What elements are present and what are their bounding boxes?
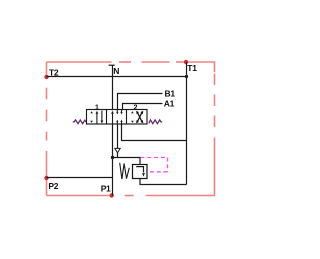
enclosure dashed border left [46,151,48,196]
spring right of valve [149,120,162,124]
relief valve flow arrow [136,167,143,173]
wire N carryover vertical [112,65,114,110]
relief valve pilot line (dashed) [141,158,168,172]
wire T2-T1 tank line [47,76,187,78]
svg-text:B1: B1 [165,89,176,99]
wire relief feed [117,124,119,158]
svg-text:P2: P2 [48,181,58,191]
valve neutral position internals [111,110,123,124]
svg-text:T2: T2 [49,68,59,78]
enclosure dashed border bottom [125,195,134,197]
directional valve DV1 body [87,110,148,125]
wire P1 vertical [112,124,114,196]
junction node P [111,156,114,159]
valve position 2 internals [131,111,143,123]
spring left of valve [73,120,86,124]
enclosure dashed border top (valve block boundary) [47,62,215,196]
svg-text:2: 2 [134,104,138,111]
wire valve tank return [122,124,187,141]
relief valve spring [120,163,130,179]
wire relief output [140,179,187,185]
svg-text:N: N [113,66,119,76]
port dot T1 [184,60,188,64]
svg-text:T1: T1 [187,63,197,73]
port dot P2 [44,176,48,180]
port dot P1 [110,193,114,197]
relief valve RV body [133,165,148,179]
wire relief input [113,158,141,165]
svg-text:A1: A1 [164,99,175,109]
svg-text:1: 1 [95,104,99,111]
enclosure dashed border right [214,74,216,86]
wire A1 [123,104,163,111]
flow direction check arrow [115,148,120,152]
port N tick [109,64,115,66]
port dot T2 [44,75,48,79]
wire T1 down right side [186,62,188,185]
junction node T [185,75,188,78]
svg-text:P1: P1 [101,184,111,194]
wire P2 [47,177,113,179]
wire B1 [118,94,163,111]
valve position 1 internals [90,111,103,124]
